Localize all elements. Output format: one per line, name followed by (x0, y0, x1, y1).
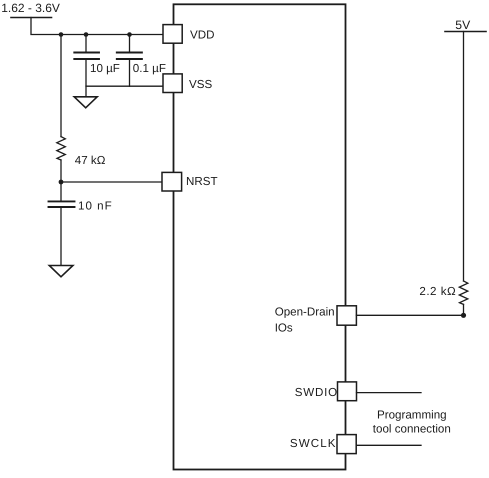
junction node C2 (127, 32, 132, 37)
junction node open-drain pull-up (461, 313, 466, 318)
wire SWDIO stub (357, 392, 422, 394)
pin box SWDIO (338, 382, 357, 401)
wire NRST node to NRST pin (61, 181, 162, 183)
pin box SWCLK (337, 435, 356, 454)
capacitor C3 10nF (49, 201, 75, 207)
pin box VSS (163, 74, 182, 93)
svg-text:tool connection: tool connection (373, 423, 451, 436)
pin box NRST (162, 172, 182, 191)
wire open-drain pin to pull-up (356, 314, 463, 316)
wire ground return to VSS (86, 85, 163, 87)
svg-text:VSS: VSS (189, 78, 212, 91)
wire C1 top lead (85, 35, 87, 52)
wire supply to VDD (31, 18, 163, 35)
svg-text:VDD: VDD (190, 29, 214, 42)
svg-text:5V: 5V (455, 18, 471, 32)
resistor R1 47k (57, 137, 66, 160)
capacitor C2 0.1uF (117, 53, 142, 60)
svg-text:SWDIO: SWDIO (295, 386, 338, 399)
5V rail bar (445, 31, 486, 33)
ground symbol below C3 (49, 266, 73, 277)
svg-text:Programming: Programming (377, 408, 447, 421)
svg-text:10 µF: 10 µF (90, 62, 120, 75)
junction node resistor branch (59, 32, 64, 37)
svg-text:10 nF: 10 nF (78, 199, 113, 212)
wire C2 bottom lead (129, 60, 131, 86)
wire C1 bottom lead (85, 60, 87, 97)
wire NRST node to C3 (60, 182, 62, 201)
svg-text:0.1 µF: 0.1 µF (133, 62, 166, 75)
svg-text:2.2 kΩ: 2.2 kΩ (419, 285, 456, 298)
wire R1 to NRST node (60, 160, 62, 182)
junction node NRST (59, 180, 64, 185)
wire VDD net to resistor R1 (60, 35, 62, 137)
junction node C1 (84, 32, 89, 37)
resistor R2 2.2k (459, 281, 468, 304)
svg-text:47 kΩ: 47 kΩ (75, 154, 106, 167)
wire SWCLK stub (356, 444, 421, 446)
svg-text:1.62 - 3.6V: 1.62 - 3.6V (1, 1, 60, 15)
capacitor C1 10uF (74, 53, 99, 60)
svg-text:SWCLK: SWCLK (290, 437, 337, 450)
wire R2 to open-drain line (463, 304, 465, 315)
svg-text:IOs: IOs (275, 321, 293, 334)
svg-text:Open-Drain: Open-Drain (275, 305, 335, 318)
wire C2 top lead (129, 35, 131, 52)
wire 5V to R2 (463, 32, 465, 282)
pin box Open-Drain IOs (337, 306, 356, 325)
ground symbol below C1 (74, 97, 97, 108)
svg-text:NRST: NRST (186, 175, 218, 188)
MCU block (174, 4, 346, 469)
pin box VDD (163, 25, 182, 44)
supply rail bar (11, 17, 52, 19)
wire C3 to ground (60, 208, 62, 265)
